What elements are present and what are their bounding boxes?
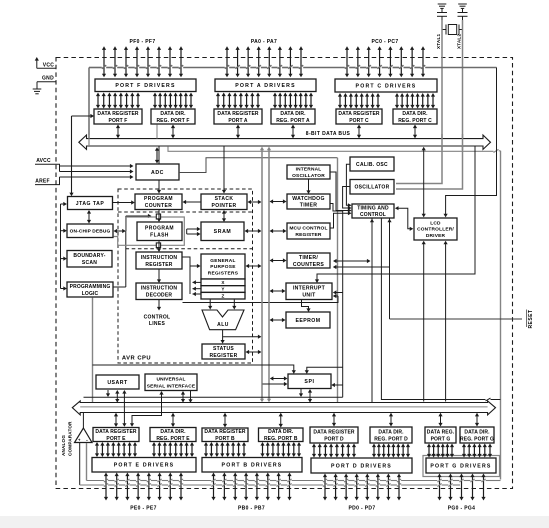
wire right bus loop bbox=[168, 146, 501, 479]
wire mcu control to bus bbox=[270, 229, 287, 233]
svg-text:DECODER: DECODER bbox=[146, 293, 173, 299]
wire comparator inputs bbox=[80, 443, 87, 485]
register-driver arrows port B bbox=[204, 442, 301, 457]
GND pin bbox=[33, 76, 56, 94]
svg-text:REG. PORT A: REG. PORT A bbox=[276, 118, 310, 124]
svg-text:OSCILLATOR: OSCILLATOR bbox=[292, 173, 325, 179]
svg-text:REG. PORT F: REG. PORT F bbox=[156, 118, 189, 124]
wire JTAG chain bbox=[61, 202, 67, 291]
wire stack pointer to bus bbox=[248, 200, 262, 204]
wire debug to flash bbox=[114, 214, 152, 287]
register-driver arrows port D bbox=[312, 444, 410, 458]
wire programming logic to flash bbox=[113, 286, 126, 288]
wire timers to bus bbox=[270, 258, 287, 262]
wire interrupt from lcd region bbox=[315, 146, 475, 283]
bus link arrows port B bbox=[223, 413, 283, 428]
pins PB0 - PB7 bbox=[211, 473, 291, 512]
svg-text:OSCILLATOR: OSCILLATOR bbox=[354, 185, 389, 191]
data direction register port A bbox=[271, 109, 315, 124]
wire sram to bus bbox=[245, 229, 262, 233]
data register port F bbox=[94, 109, 142, 124]
wire XTAL2 to oscillator bbox=[396, 20, 463, 189]
wire stack pointer to sram bbox=[222, 210, 226, 222]
svg-text:TIMER/: TIMER/ bbox=[299, 255, 318, 261]
port drivers port F bbox=[95, 79, 196, 92]
JTAG TAP bbox=[68, 197, 113, 210]
wire mcu control to timing bbox=[331, 211, 352, 228]
wire jtag to program counter bbox=[113, 200, 135, 204]
svg-text:PA0 - PA7: PA0 - PA7 bbox=[251, 39, 277, 45]
data register port C bbox=[336, 109, 382, 124]
svg-text:ALU: ALU bbox=[217, 322, 229, 328]
svg-text:LCD: LCD bbox=[430, 221, 441, 227]
svg-text:PF0 - PF7: PF0 - PF7 bbox=[130, 39, 156, 45]
wire crossings over bottom bus bbox=[124, 402, 161, 414]
svg-text:Z: Z bbox=[221, 293, 224, 298]
svg-text:SPI: SPI bbox=[304, 379, 314, 385]
wire JTAG TAP to debug bbox=[87, 210, 91, 224]
svg-text:DATA REGISTER: DATA REGISTER bbox=[338, 111, 379, 117]
svg-text:BOUNDARY-: BOUNDARY- bbox=[73, 253, 105, 259]
svg-text:COUNTERS: COUNTERS bbox=[293, 262, 325, 268]
svg-text:DATA DIR.: DATA DIR. bbox=[160, 429, 186, 435]
svg-text:JTAG TAP: JTAG TAP bbox=[76, 201, 105, 207]
program flash outer bbox=[114, 217, 185, 245]
svg-text:PORT C: PORT C bbox=[349, 118, 369, 124]
wire reset bbox=[390, 310, 534, 329]
svg-text:INTERRUPT: INTERRUPT bbox=[293, 286, 326, 292]
svg-text:REGISTERS: REGISTERS bbox=[208, 270, 239, 276]
wire bus to lcd bbox=[422, 147, 426, 218]
SPI bbox=[288, 374, 331, 389]
wire clock routing with pin hops bbox=[89, 65, 497, 138]
outer dashed chip boundary bbox=[56, 58, 513, 489]
svg-text:ADC: ADC bbox=[151, 170, 164, 176]
svg-text:DATA DIR.: DATA DIR. bbox=[280, 111, 306, 117]
svg-text:COMPARATOR: COMPARATOR bbox=[68, 421, 73, 456]
svg-text:DATA REGISTER: DATA REGISTER bbox=[95, 429, 136, 435]
svg-text:WATCHDOG: WATCHDOG bbox=[292, 196, 325, 202]
wire internal osc to watchdog bbox=[306, 180, 310, 195]
bus link arrows port E bbox=[114, 413, 175, 427]
pins PG0 - PG4 bbox=[437, 474, 485, 512]
svg-text:REG. PORT G: REG. PORT G bbox=[460, 436, 494, 442]
LCD CONTROLLER/DRIVER bbox=[414, 218, 457, 240]
svg-text:DATA DIR.: DATA DIR. bbox=[160, 111, 186, 117]
data register port A bbox=[214, 109, 262, 124]
svg-text:AVCC: AVCC bbox=[36, 158, 51, 164]
svg-text:PORT C DRIVERS: PORT C DRIVERS bbox=[356, 83, 417, 89]
svg-text:ON-CHIP DEBUG: ON-CHIP DEBUG bbox=[70, 228, 111, 234]
svg-text:PORT F: PORT F bbox=[109, 118, 128, 124]
PROGRAM FLASH bbox=[137, 222, 182, 241]
svg-text:PORT A: PORT A bbox=[228, 118, 248, 124]
svg-text:PE0 - PE7: PE0 - PE7 bbox=[130, 506, 157, 512]
INTERRUPT UNIT bbox=[286, 283, 332, 300]
wire instruction register to registers bbox=[183, 257, 202, 296]
wire crossings over top bus bbox=[89, 134, 463, 150]
pins PC0 - PC7 bbox=[345, 39, 425, 77]
svg-text:VCC: VCC bbox=[43, 62, 55, 68]
wire pc to flash bbox=[157, 210, 161, 222]
svg-text:POINTER: POINTER bbox=[211, 203, 236, 209]
INTERNAL OSCILLATOR bbox=[287, 165, 330, 179]
data direction register port F bbox=[151, 109, 195, 124]
port drivers port G bbox=[426, 458, 496, 473]
ALU bbox=[202, 310, 244, 330]
wire comparator output bbox=[82, 413, 84, 428]
register-driver arrows port E bbox=[95, 442, 194, 457]
svg-text:PROGRAM: PROGRAM bbox=[145, 226, 174, 232]
svg-text:XTAL2: XTAL2 bbox=[457, 34, 462, 49]
svg-text:STACK: STACK bbox=[215, 196, 234, 202]
ON-CHIP DEBUG bbox=[67, 224, 113, 238]
flash junction pads bbox=[156, 214, 160, 248]
svg-text:DATA REG.: DATA REG. bbox=[427, 429, 455, 435]
svg-text:STATUS: STATUS bbox=[213, 346, 234, 352]
svg-text:PORT G DRIVERS: PORT G DRIVERS bbox=[430, 463, 491, 469]
data direction register port C bbox=[393, 109, 437, 124]
svg-text:REGISTER: REGISTER bbox=[145, 262, 172, 268]
wire spi to bus bbox=[263, 376, 288, 386]
wire lcd outputs bbox=[422, 241, 448, 402]
wire timing to lcd bbox=[395, 206, 413, 231]
node XTAL2 bbox=[457, 34, 462, 49]
WATCHDOG TIMER bbox=[287, 194, 330, 209]
svg-text:ANALOG: ANALOG bbox=[61, 435, 66, 456]
wire data bus vertical left bbox=[260, 147, 264, 403]
data register port G bbox=[425, 427, 456, 443]
BOUNDARY-SCAN bbox=[67, 251, 112, 268]
svg-text:PORT G: PORT G bbox=[431, 436, 451, 442]
USART bbox=[96, 375, 139, 389]
svg-text:PORT D: PORT D bbox=[324, 436, 344, 442]
STATUS REGISTER bbox=[202, 344, 245, 359]
svg-text:EEPROM: EEPROM bbox=[296, 318, 321, 324]
PROGRAM COUNTER bbox=[135, 194, 182, 210]
TIMING AND CONTROL bbox=[352, 204, 394, 218]
pins PF0 - PF7 bbox=[102, 39, 183, 77]
svg-text:SRAM: SRAM bbox=[214, 229, 232, 235]
wire XTAL1 to oscillator bbox=[396, 20, 442, 184]
wire flash to sram bbox=[187, 227, 201, 236]
wire registers to bus bbox=[246, 264, 262, 268]
svg-text:DRIVER: DRIVER bbox=[426, 233, 446, 239]
svg-text:PORT B DRIVERS: PORT B DRIVERS bbox=[222, 463, 283, 469]
port G gray outer bbox=[423, 456, 500, 477]
wire registers to ALU bbox=[208, 300, 236, 310]
wire watchdog to bus bbox=[270, 199, 287, 203]
svg-text:DATA DIR.: DATA DIR. bbox=[464, 429, 490, 435]
svg-text:UNIVERSAL: UNIVERSAL bbox=[156, 377, 185, 383]
TIMER/COUNTERS bbox=[287, 253, 330, 268]
dashed addressing line upper bbox=[118, 211, 253, 213]
wire programming to spi bbox=[93, 365, 296, 374]
svg-text:PORT D DRIVERS: PORT D DRIVERS bbox=[331, 463, 392, 469]
svg-text:RESET: RESET bbox=[528, 310, 534, 329]
port drivers port E bbox=[92, 458, 196, 473]
dashed addressing line lower bbox=[126, 248, 253, 250]
svg-text:XTAL1: XTAL1 bbox=[436, 34, 441, 49]
register-driver arrows port G bbox=[427, 444, 492, 458]
svg-text:CONTROL: CONTROL bbox=[144, 315, 171, 321]
svg-text:CALIB. OSC: CALIB. OSC bbox=[356, 162, 388, 168]
wire ALU to status register bbox=[221, 330, 262, 344]
svg-text:8-BIT DATA BUS: 8-BIT DATA BUS bbox=[306, 131, 351, 137]
port drivers port D bbox=[311, 458, 412, 473]
INSTRUCTION DECODER bbox=[136, 283, 182, 300]
capacitor C2 on XTAL2 bbox=[458, 4, 468, 20]
ADC bbox=[136, 164, 179, 180]
CALIB. OSC bbox=[350, 157, 394, 171]
wire AVCC to ADC bbox=[60, 164, 134, 174]
wire timing control outputs bbox=[370, 219, 501, 403]
register-driver arrows port F bbox=[96, 93, 193, 109]
wire comparator routing with pin hops bbox=[80, 479, 501, 487]
wire usi to bus and port bbox=[130, 391, 193, 427]
svg-text:SERIAL INTERFACE: SERIAL INTERFACE bbox=[147, 383, 196, 389]
svg-text:COUNTER: COUNTER bbox=[145, 203, 173, 209]
svg-text:REGISTER: REGISTER bbox=[295, 232, 322, 238]
wire clock to lcd bbox=[444, 68, 497, 218]
bottom page band bbox=[0, 516, 549, 528]
crystal Y1 bbox=[442, 25, 463, 35]
wire ADC output bbox=[179, 158, 338, 402]
data register port E bbox=[93, 428, 139, 442]
MCU CONTROL REGISTER bbox=[287, 223, 330, 239]
data direction register port E bbox=[150, 428, 196, 442]
svg-text:UNIT: UNIT bbox=[302, 293, 316, 299]
svg-text:LOGIC: LOGIC bbox=[82, 291, 99, 297]
wire data bus vertical right bbox=[267, 147, 271, 403]
wire status register to bus bbox=[246, 350, 262, 354]
bus link arrows port A bbox=[236, 125, 295, 139]
8-bit data bus (bottom) bbox=[72, 401, 495, 415]
op-amp comparator bbox=[75, 428, 93, 444]
analog comparator label bbox=[61, 421, 73, 456]
wire flash to instruction register bbox=[157, 241, 161, 252]
svg-text:DATA DIR.: DATA DIR. bbox=[402, 111, 428, 117]
svg-text:INSTRUCTION: INSTRUCTION bbox=[141, 255, 178, 261]
wire pc to stack pointer bbox=[183, 200, 201, 204]
wire bus to program counter bbox=[157, 146, 161, 193]
svg-text:PORT E: PORT E bbox=[106, 436, 126, 442]
wire spi long horizontal bbox=[84, 396, 343, 398]
svg-text:DATA DIR.: DATA DIR. bbox=[378, 429, 404, 435]
svg-text:DATA DIR.: DATA DIR. bbox=[268, 429, 294, 435]
svg-text:PROGRAMMING: PROGRAMMING bbox=[70, 284, 111, 290]
wire eeprom to bus bbox=[270, 318, 286, 322]
wire bus to stack pointer top bbox=[222, 146, 226, 193]
STACK POINTER bbox=[201, 194, 247, 210]
pins PD0 - PD7 bbox=[323, 474, 401, 512]
port drivers port C bbox=[335, 79, 437, 92]
bus link arrows port C bbox=[357, 125, 417, 139]
data direction register port G bbox=[460, 427, 494, 443]
svg-text:TIMING AND: TIMING AND bbox=[357, 206, 389, 212]
svg-text:REGISTER: REGISTER bbox=[210, 353, 238, 359]
svg-text:INTERNAL: INTERNAL bbox=[296, 167, 322, 173]
svg-text:PORT E DRIVERS: PORT E DRIVERS bbox=[114, 463, 175, 469]
wire watchdog right bbox=[305, 204, 343, 398]
svg-text:REG. PORT D: REG. PORT D bbox=[374, 436, 408, 442]
wire calib osc to timing bbox=[346, 164, 351, 207]
svg-text:CONTROLLER/: CONTROLLER/ bbox=[417, 227, 454, 233]
wire programming logic to SPI bus bbox=[92, 298, 94, 403]
svg-text:Y: Y bbox=[221, 287, 224, 292]
wire instruction register to decoder bbox=[157, 270, 161, 284]
SRAM bbox=[201, 222, 244, 241]
svg-text:PORT A DRIVERS: PORT A DRIVERS bbox=[235, 83, 296, 89]
bus link arrows port D bbox=[332, 413, 393, 427]
AVR CPU boundary bbox=[118, 189, 253, 363]
svg-text:TIMER: TIMER bbox=[300, 203, 318, 209]
wire interrupt to bus bbox=[270, 289, 286, 293]
PROGRAMMING LOGIC bbox=[67, 282, 113, 297]
capacitor C1 on XTAL1 bbox=[437, 4, 447, 20]
svg-text:LINES: LINES bbox=[149, 321, 166, 327]
svg-text:GND: GND bbox=[42, 76, 54, 82]
svg-text:PROGRAM: PROGRAM bbox=[144, 196, 173, 202]
node XTAL1 bbox=[436, 17, 442, 49]
data direction register port D bbox=[370, 427, 412, 443]
svg-text:PD0 - PD7: PD0 - PD7 bbox=[348, 506, 375, 512]
register-driver arrows port A bbox=[216, 93, 313, 109]
wire left bus link bbox=[69, 114, 94, 196]
svg-text:PORT F DRIVERS: PORT F DRIVERS bbox=[115, 83, 175, 89]
bus link arrows port F bbox=[116, 125, 175, 139]
svg-text:REG. PORT E: REG. PORT E bbox=[156, 436, 190, 442]
node AVCC bbox=[35, 158, 60, 172]
svg-text:DATA REGISTER: DATA REGISTER bbox=[313, 429, 354, 435]
svg-text:PORT B: PORT B bbox=[215, 436, 235, 442]
svg-text:PURPOSE: PURPOSE bbox=[210, 264, 236, 270]
wire internal osc to timing bbox=[331, 172, 352, 213]
pins PA0 - PA7 bbox=[225, 39, 303, 77]
control lines label bbox=[144, 300, 171, 327]
VCC pin bbox=[35, 57, 56, 68]
wire timers from timing bbox=[333, 259, 390, 269]
wire oscillator to timing bbox=[343, 187, 352, 211]
register-driver arrows port C bbox=[338, 93, 435, 109]
wire bus to ADC bbox=[155, 125, 159, 164]
svg-text:AVR CPU: AVR CPU bbox=[122, 356, 151, 362]
wire interrupt to eeprom bbox=[302, 300, 311, 312]
svg-text:USART: USART bbox=[107, 380, 128, 386]
port drivers port A bbox=[215, 79, 316, 92]
wire decoder control long bbox=[183, 294, 339, 303]
svg-text:PB0 - PB7: PB0 - PB7 bbox=[238, 506, 265, 512]
svg-text:AREF: AREF bbox=[35, 178, 49, 184]
svg-text:DATA REGISTER: DATA REGISTER bbox=[97, 111, 138, 117]
wire AREF to ADC bbox=[60, 175, 134, 179]
data register port D bbox=[310, 427, 358, 443]
EEPROM bbox=[286, 312, 330, 328]
svg-text:SCAN: SCAN bbox=[82, 260, 97, 266]
UNIVERSAL SERIAL INTERFACE bbox=[145, 374, 197, 391]
OSCILLATOR bbox=[350, 180, 394, 195]
data register port B bbox=[202, 428, 248, 442]
wire spi to bus links bbox=[299, 389, 312, 403]
svg-text:INSTRUCTION: INSTRUCTION bbox=[141, 286, 178, 292]
svg-text:REG. PORT B: REG. PORT B bbox=[264, 436, 298, 442]
svg-text:GENERAL: GENERAL bbox=[210, 258, 236, 264]
svg-text:FLASH: FLASH bbox=[150, 233, 169, 239]
port drivers port B bbox=[202, 458, 302, 473]
data direction register port B bbox=[259, 428, 304, 442]
svg-text:DATA REGISTER: DATA REGISTER bbox=[217, 111, 258, 117]
pins PE0 - PE7 bbox=[104, 473, 183, 512]
bus link arrows port G bbox=[438, 413, 479, 427]
svg-text:REG. PORT C: REG. PORT C bbox=[398, 118, 432, 124]
svg-text:CONTROL: CONTROL bbox=[360, 212, 386, 218]
svg-text:DATA REGISTER: DATA REGISTER bbox=[204, 429, 245, 435]
8-bit data bus (top) bbox=[79, 131, 491, 149]
INSTRUCTION REGISTER bbox=[136, 252, 182, 269]
node AREF bbox=[35, 177, 60, 185]
svg-text:PG0 - PG4: PG0 - PG4 bbox=[448, 506, 476, 512]
svg-text:PC0 - PC7: PC0 - PC7 bbox=[371, 39, 398, 45]
GENERAL PURPOSE REGISTERS bbox=[201, 254, 245, 299]
svg-text:MCU CONTROL: MCU CONTROL bbox=[289, 225, 327, 231]
wire usart to bus and port bbox=[106, 390, 127, 427]
